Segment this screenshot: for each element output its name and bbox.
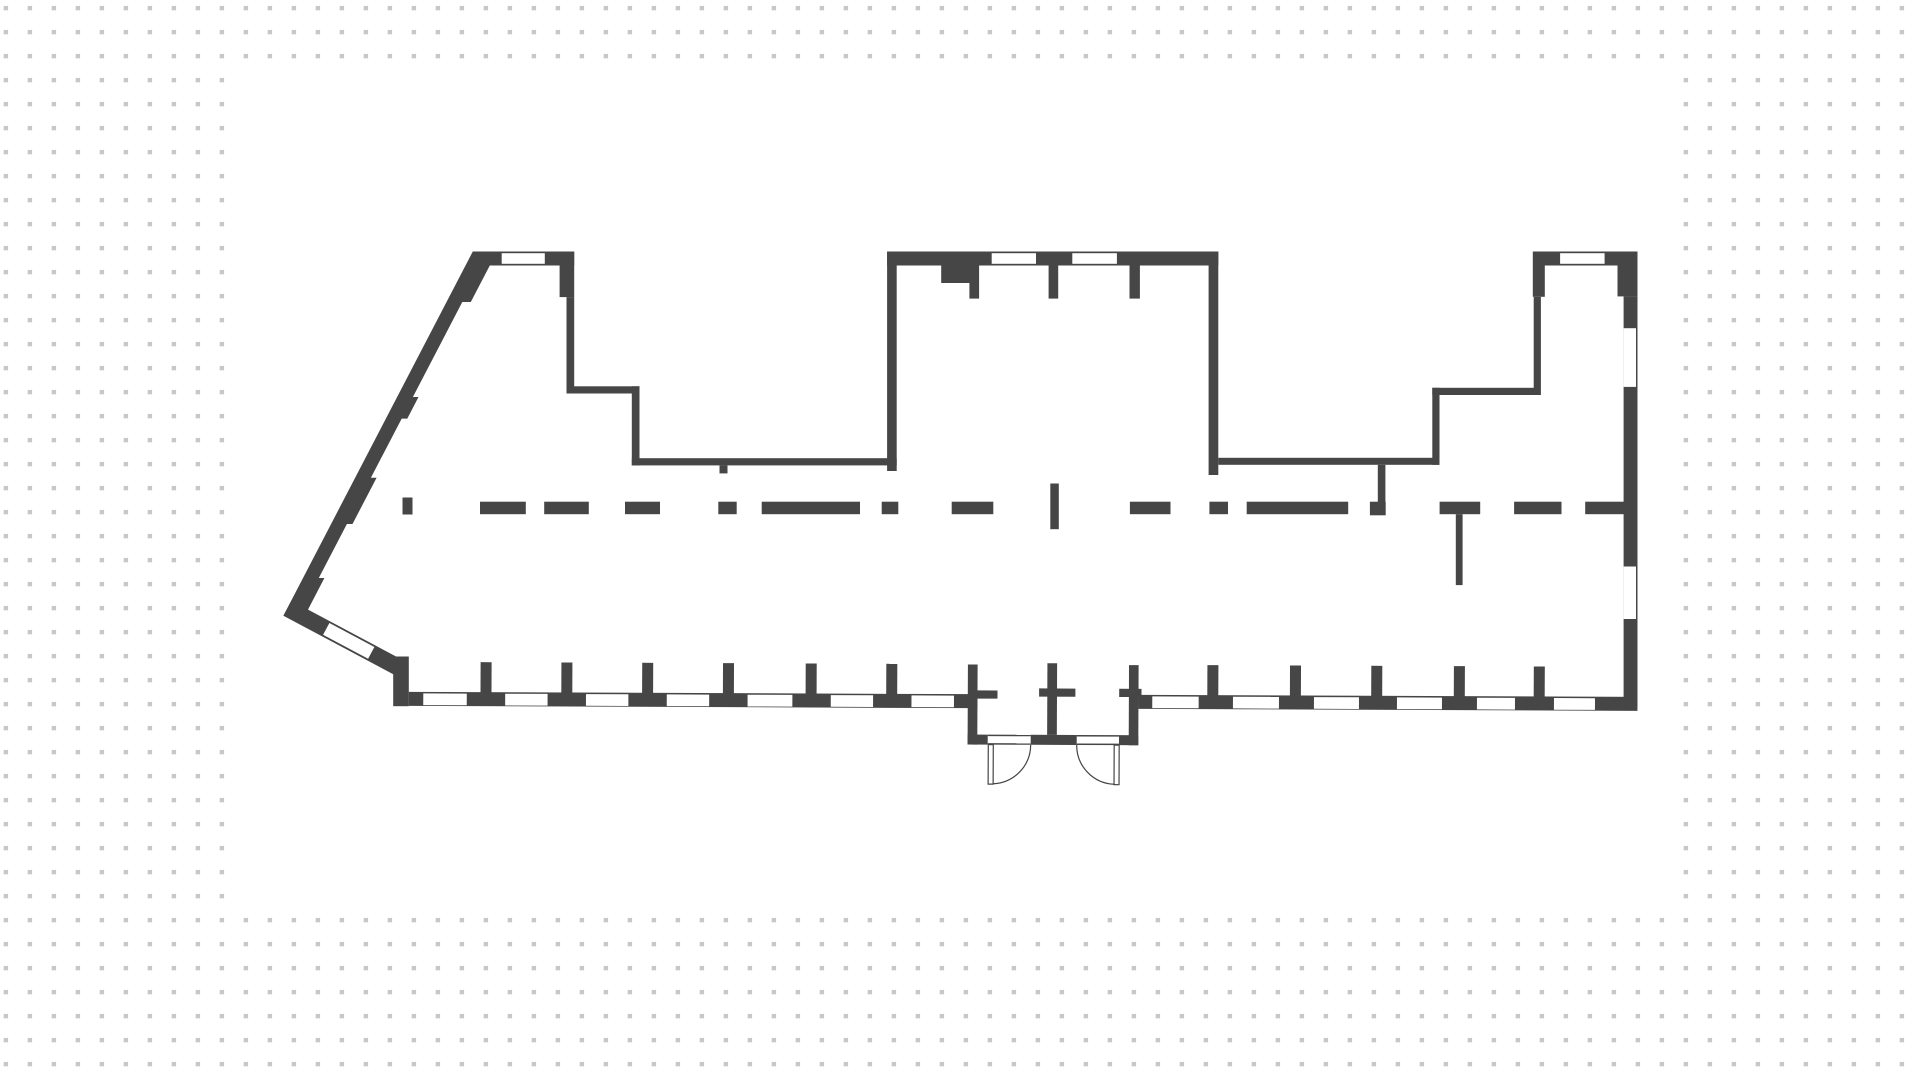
pilaster 4 [723,663,734,694]
dash 10 [1209,502,1228,515]
dash 1 [403,498,413,515]
pilaster 3 [642,663,653,694]
window 1 in middle top wall [992,253,1036,264]
window 2 in middle top wall [1072,253,1117,264]
crossbar right [1119,689,1141,697]
window A in right outer wall [1624,328,1636,387]
bottom window 5 [748,695,793,707]
wall: left wing top wall [473,252,574,266]
pilaster 9 [1371,666,1382,697]
wall: thin vertical wall right of middle [1432,388,1439,465]
wall: right room top wall [1533,252,1637,266]
pilaster 7 [1207,665,1218,696]
dash 14 [1585,502,1624,515]
wall: step wall vertical [632,386,640,465]
wall: left valley wall [632,458,897,465]
bottom window 12 [1477,698,1515,710]
wall: thin wall descending to dash line [1378,465,1386,503]
bottom window 7 [911,695,954,707]
wall: upper horizontal wall right [1432,388,1537,395]
wall: right room right wall upper thick [1618,252,1638,297]
wall: vestibule left wall [968,664,978,744]
wall: diagonal wall 2 [283,601,405,677]
wall: left wing right wall lower thin [567,297,575,393]
window B in right outer wall [1624,567,1636,620]
bottom window 13 [1554,698,1595,710]
door arc right [1077,745,1115,784]
vestibule bottom block left [968,735,988,745]
interior stub 3 [1130,265,1140,298]
window in diagonal wall 2 [323,623,374,659]
pilaster 1 [480,662,491,693]
wall: bottom wall right section [1138,695,1637,711]
bottom window 6 [831,695,873,707]
wall: diagonal wall 1 with pilaster strips [283,252,489,616]
door leaf left [988,745,993,785]
dash 13 [1514,502,1561,515]
bottom window 1 [423,693,467,705]
pilaster 5 [806,663,817,694]
dash 5 [718,502,736,515]
pilaster 6 [886,664,897,695]
bottom window 10 [1314,697,1359,709]
dash 8 [952,502,994,515]
door opening left top line [988,735,1031,737]
block at dash line under thin wall [1370,502,1386,516]
wall: vestibule center wall [1047,663,1057,735]
dash 9 [1130,502,1171,515]
dash 4 [625,502,660,515]
wall: middle protrusion right wall [1209,252,1219,476]
bottom window 4 [667,694,709,706]
vestibule bottom block right [1119,735,1138,745]
wall: left wing right wall upper thick [560,252,575,298]
bottom window 8 [1152,696,1198,708]
dash 2 [480,502,526,515]
door arc left [993,745,1031,784]
dash 7 [882,502,899,515]
wall: end block bottom-left [393,657,409,707]
vertical dash at center [1050,484,1059,530]
T-bar stem [1456,514,1463,585]
dash 6 long [762,502,860,515]
bottom window 11 [1397,697,1442,709]
wall: bottom wall left section [409,692,978,708]
wall: vestibule right wall [1129,665,1139,745]
wall: right valley wall [1218,458,1439,465]
wall: right room left wall upper [1533,252,1545,297]
wall: middle protrusion left wall [887,252,897,472]
dash 12 T-bar [1440,502,1481,515]
wall: right room left wall lower [1534,297,1541,395]
window in right room top wall [1560,253,1605,264]
wall: step wall horizontal [567,386,640,393]
wall: middle protrusion top wall [887,252,1218,266]
interior stub 2 [1049,265,1059,298]
door leaf right [1114,745,1119,785]
bottom window 2 [505,694,547,706]
pilaster 2 [561,662,572,693]
door opening right bottom line [1077,743,1119,745]
dash 3 [544,502,589,515]
bottom window 3 [586,694,628,706]
window in left wing top wall [502,253,545,264]
wall stub below left valley wall [720,465,728,473]
crossbar center [1039,688,1075,696]
wall: right outer wall [1624,296,1638,706]
interior block in middle protrusion [941,265,979,283]
door opening left bottom line [988,743,1031,745]
pilaster 8 [1290,665,1301,696]
pilaster 11 [1534,666,1545,697]
interior stub under block [969,283,979,299]
door opening right top line [1077,735,1119,737]
crossbar left [977,690,997,698]
vestibule bottom block center [1031,735,1077,745]
bottom window 9 [1233,697,1279,709]
dash 11 long [1247,502,1349,515]
pilaster 10 [1454,666,1465,697]
